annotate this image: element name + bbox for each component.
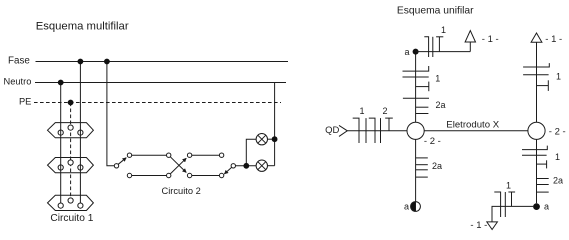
svg-text:Circuito 2: Circuito 2 <box>162 186 201 196</box>
svg-text:2: 2 <box>382 106 387 116</box>
svg-text:a: a <box>404 47 409 57</box>
svg-text:Fase: Fase <box>8 55 30 66</box>
svg-text:PE: PE <box>19 96 31 106</box>
svg-text:1: 1 <box>556 72 561 82</box>
svg-text:Esquema unifilar: Esquema unifilar <box>397 6 474 17</box>
svg-text:1: 1 <box>359 106 364 116</box>
svg-text:Eletroduto X: Eletroduto X <box>446 120 499 131</box>
svg-text:a: a <box>544 202 549 212</box>
svg-text:Neutro: Neutro <box>3 76 31 86</box>
svg-text:1: 1 <box>441 25 446 35</box>
svg-text:Esquema multifilar: Esquema multifilar <box>36 20 129 32</box>
svg-text:2a: 2a <box>553 176 563 186</box>
svg-text:- 2 -: - 2 - <box>424 136 441 147</box>
svg-text:- 1 -: - 1 - <box>482 34 499 45</box>
svg-text:1: 1 <box>555 152 560 162</box>
svg-text:- 1 -: - 1 - <box>545 34 562 45</box>
svg-text:QD: QD <box>325 125 339 136</box>
svg-text:- 2 -: - 2 - <box>549 126 566 137</box>
svg-text:2a: 2a <box>436 100 446 110</box>
svg-text:Circuito 1: Circuito 1 <box>50 213 93 224</box>
svg-text:- 1 -: - 1 - <box>470 220 487 231</box>
svg-text:1: 1 <box>435 74 440 84</box>
svg-text:a: a <box>404 202 409 212</box>
svg-text:2a: 2a <box>432 161 442 171</box>
svg-text:1: 1 <box>506 181 511 191</box>
